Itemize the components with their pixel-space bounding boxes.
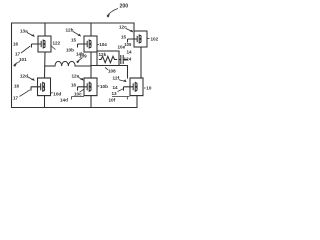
svg-text:108: 108 <box>108 68 116 73</box>
svg-text:10c: 10c <box>74 92 82 97</box>
svg-text:14: 14 <box>113 85 119 90</box>
svg-text:109: 109 <box>79 54 87 59</box>
svg-text:13a: 13a <box>20 29 28 34</box>
svg-text:16: 16 <box>71 83 77 88</box>
svg-text:13: 13 <box>112 91 118 96</box>
svg-text:12b: 12b <box>66 28 74 33</box>
svg-text:124: 124 <box>124 56 132 61</box>
svg-text:15: 15 <box>71 38 77 43</box>
svg-text:10b: 10b <box>66 48 74 53</box>
svg-text:10b: 10b <box>100 84 108 89</box>
svg-text:101: 101 <box>19 57 27 62</box>
svg-text:15: 15 <box>121 35 127 40</box>
svg-text:14d: 14d <box>60 97 68 102</box>
svg-text:17: 17 <box>13 96 19 101</box>
svg-text:12d: 12d <box>20 73 28 78</box>
svg-text:102: 102 <box>151 36 159 41</box>
svg-text:16: 16 <box>14 84 20 89</box>
svg-text:104: 104 <box>99 42 107 47</box>
svg-text:12c: 12c <box>119 25 127 30</box>
svg-text:200: 200 <box>120 3 129 9</box>
svg-text:12k: 12k <box>99 52 107 57</box>
svg-text:122: 122 <box>53 41 61 46</box>
svg-text:10: 10 <box>146 86 152 91</box>
svg-text:16: 16 <box>13 42 19 47</box>
svg-text:17: 17 <box>15 52 21 57</box>
svg-text:12f: 12f <box>113 76 120 81</box>
svg-text:12e: 12e <box>72 73 80 78</box>
svg-text:105: 105 <box>124 42 132 47</box>
svg-text:10f: 10f <box>109 97 116 102</box>
svg-text:14: 14 <box>127 49 133 54</box>
svg-text:10d: 10d <box>53 91 61 96</box>
